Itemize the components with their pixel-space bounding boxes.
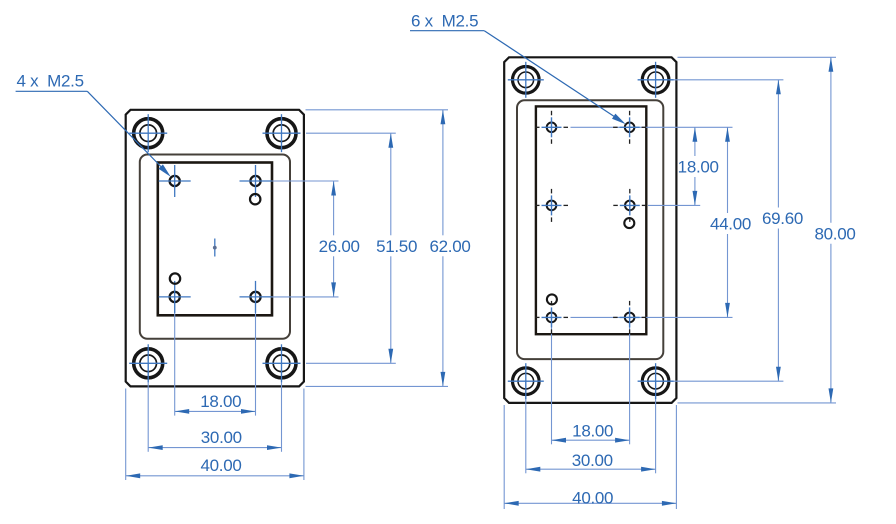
svg-text:62.00: 62.00 — [429, 237, 470, 256]
right view: extension line bottom edge to 80.00 — [678, 402, 837, 404]
right view: extension line top corner-hole row to 69.60 — [656, 79, 784, 81]
svg-text:51.50: 51.50 — [376, 237, 417, 256]
left view: pilot hole below top-right — [250, 194, 260, 204]
right view: tapped hole M2.5 row3 left — [535, 301, 568, 334]
dimension 62.00 plate height (left view) — [429, 110, 470, 387]
right view: extension line bottom corner-hole row to 69.60 — [656, 380, 784, 382]
left view: extension line bottom edge to 62.00 — [306, 385, 449, 387]
left view: extension line top corner-hole row to 51.50 — [306, 132, 396, 134]
right view: corner hole bottom-left CB — [508, 363, 544, 399]
dimension 30.00 corner hole spacing (right view bottom) — [526, 451, 656, 471]
left view: extension line right corner holes down to 30.00 — [281, 363, 283, 452]
left view: extension line left corner holes down to 30.00 — [147, 363, 149, 452]
right view: pilot hole below row2 right — [624, 218, 634, 228]
dimension 40.00 plate width (right view bottom) — [504, 488, 676, 507]
left view: tapped hole M2.5 bottom-right — [240, 281, 272, 313]
left view: extension line right inner holes down to 18.00 — [255, 297, 257, 416]
left view: extension line bottom corner-hole row to 51.50 — [306, 362, 396, 364]
right view: corner hole bottom-right CB — [638, 363, 674, 399]
right view: corner hole top-right CB — [638, 62, 674, 98]
left view: corner hole top-right CB — [263, 114, 301, 152]
right view: extension line hole row 1 to 44.00 — [571, 126, 733, 128]
right view: extension line right edge down to 40.00 — [675, 405, 677, 509]
left view: corner hole bottom-left CB — [129, 344, 167, 382]
svg-text:18.00: 18.00 — [200, 392, 241, 411]
left view: extension line top edge to 62.00 — [306, 109, 449, 111]
dimension 40.00 plate width (left view) — [126, 456, 304, 478]
svg-text:26.00: 26.00 — [319, 237, 360, 256]
right view: inner pocket outline — [517, 100, 663, 359]
dimension 80.00 plate height (right view) — [814, 57, 855, 403]
left view: tapped hole M2.5 top-right — [240, 165, 272, 197]
left view: inner pocket outline — [140, 155, 290, 339]
right view: extension line top edge to 80.00 — [678, 56, 837, 58]
left view: extension line left inner holes down to 18.00 — [174, 297, 176, 416]
svg-text:69.60: 69.60 — [762, 209, 803, 228]
dimension 44.00 hole row spacing (right view) — [710, 127, 751, 317]
left view: corner hole top-left CB — [129, 114, 167, 152]
left view: extension line top inner-hole row to 26.00 — [256, 180, 339, 182]
svg-text:44.00: 44.00 — [710, 215, 751, 234]
svg-text:40.00: 40.00 — [200, 456, 241, 475]
right view: tapped hole M2.5 row1 left — [535, 111, 568, 144]
right view: tapped hole M2.5 row2 left — [535, 189, 568, 222]
dimension 51.50 corner hole spacing (left view) — [376, 133, 417, 363]
svg-text:30.00: 30.00 — [201, 428, 242, 447]
svg-text:30.00: 30.00 — [572, 451, 613, 470]
left view: pilot hole above bottom-left — [170, 273, 180, 283]
leader note 6 x M2.5 (right view) — [410, 11, 626, 124]
leader note 4 x M2.5 (left view) — [16, 72, 171, 177]
right view: corner hole top-left CB — [508, 62, 544, 98]
right view: extension line hole row 2 to 18.00 — [648, 204, 700, 206]
left view: extension line right edge down to 40.00 — [303, 389, 305, 481]
dimension 18.00 inner hole spacing (left view) — [175, 392, 256, 414]
right view: tapped hole M2.5 row1 right — [613, 111, 646, 144]
dimension 18.00 hole row spacing (right view) — [678, 127, 719, 205]
right view: extension line left corner holes down to 30.00 — [525, 381, 527, 473]
right view: extension line right bottom holes down to 18.00 — [629, 317, 631, 444]
right view: tapped hole M2.5 row3 right — [613, 301, 646, 334]
left view: component plate outline — [158, 163, 272, 316]
dimension 30.00 corner hole spacing (left view) — [148, 428, 281, 450]
left view: outer plate outline 40x62 — [126, 110, 304, 387]
left view: tapped hole M2.5 top-left — [159, 165, 191, 197]
dimension 18.00 hole spacing (right view bottom) — [552, 422, 630, 443]
left view: extension line left edge down to 40.00 — [125, 389, 127, 481]
dimension 69.60 corner hole spacing (right view) — [762, 80, 803, 381]
right view: tapped hole M2.5 row2 right — [613, 189, 646, 222]
right view: extension line right corner holes down to 30.00 — [655, 381, 657, 473]
right view: extension line hole row 3 to 44.00 — [571, 316, 733, 318]
svg-text:18.00: 18.00 — [678, 158, 719, 177]
svg-text:80.00: 80.00 — [814, 224, 855, 243]
svg-text:4 x M2.5: 4 x M2.5 — [17, 72, 84, 91]
right view: outer plate outline 40x80 — [504, 57, 676, 403]
left view: center mark — [213, 239, 217, 257]
left view: corner hole bottom-right CB — [263, 344, 301, 382]
right view: component plate outline — [536, 106, 646, 334]
dimension 26.00 inner hole spacing (left view) — [319, 181, 360, 297]
left view: extension line bottom inner-hole row to 26.00 — [256, 296, 339, 298]
svg-text:40.00: 40.00 — [572, 488, 613, 507]
left view: tapped hole M2.5 bottom-left — [159, 281, 191, 313]
svg-text:6 x M2.5: 6 x M2.5 — [411, 11, 478, 30]
right view: pilot hole above row3 left — [547, 294, 557, 304]
svg-text:18.00: 18.00 — [572, 422, 613, 441]
right view: extension line left edge down to 40.00 — [503, 405, 505, 509]
right view: extension line left bottom holes down to 18.00 — [551, 317, 553, 444]
